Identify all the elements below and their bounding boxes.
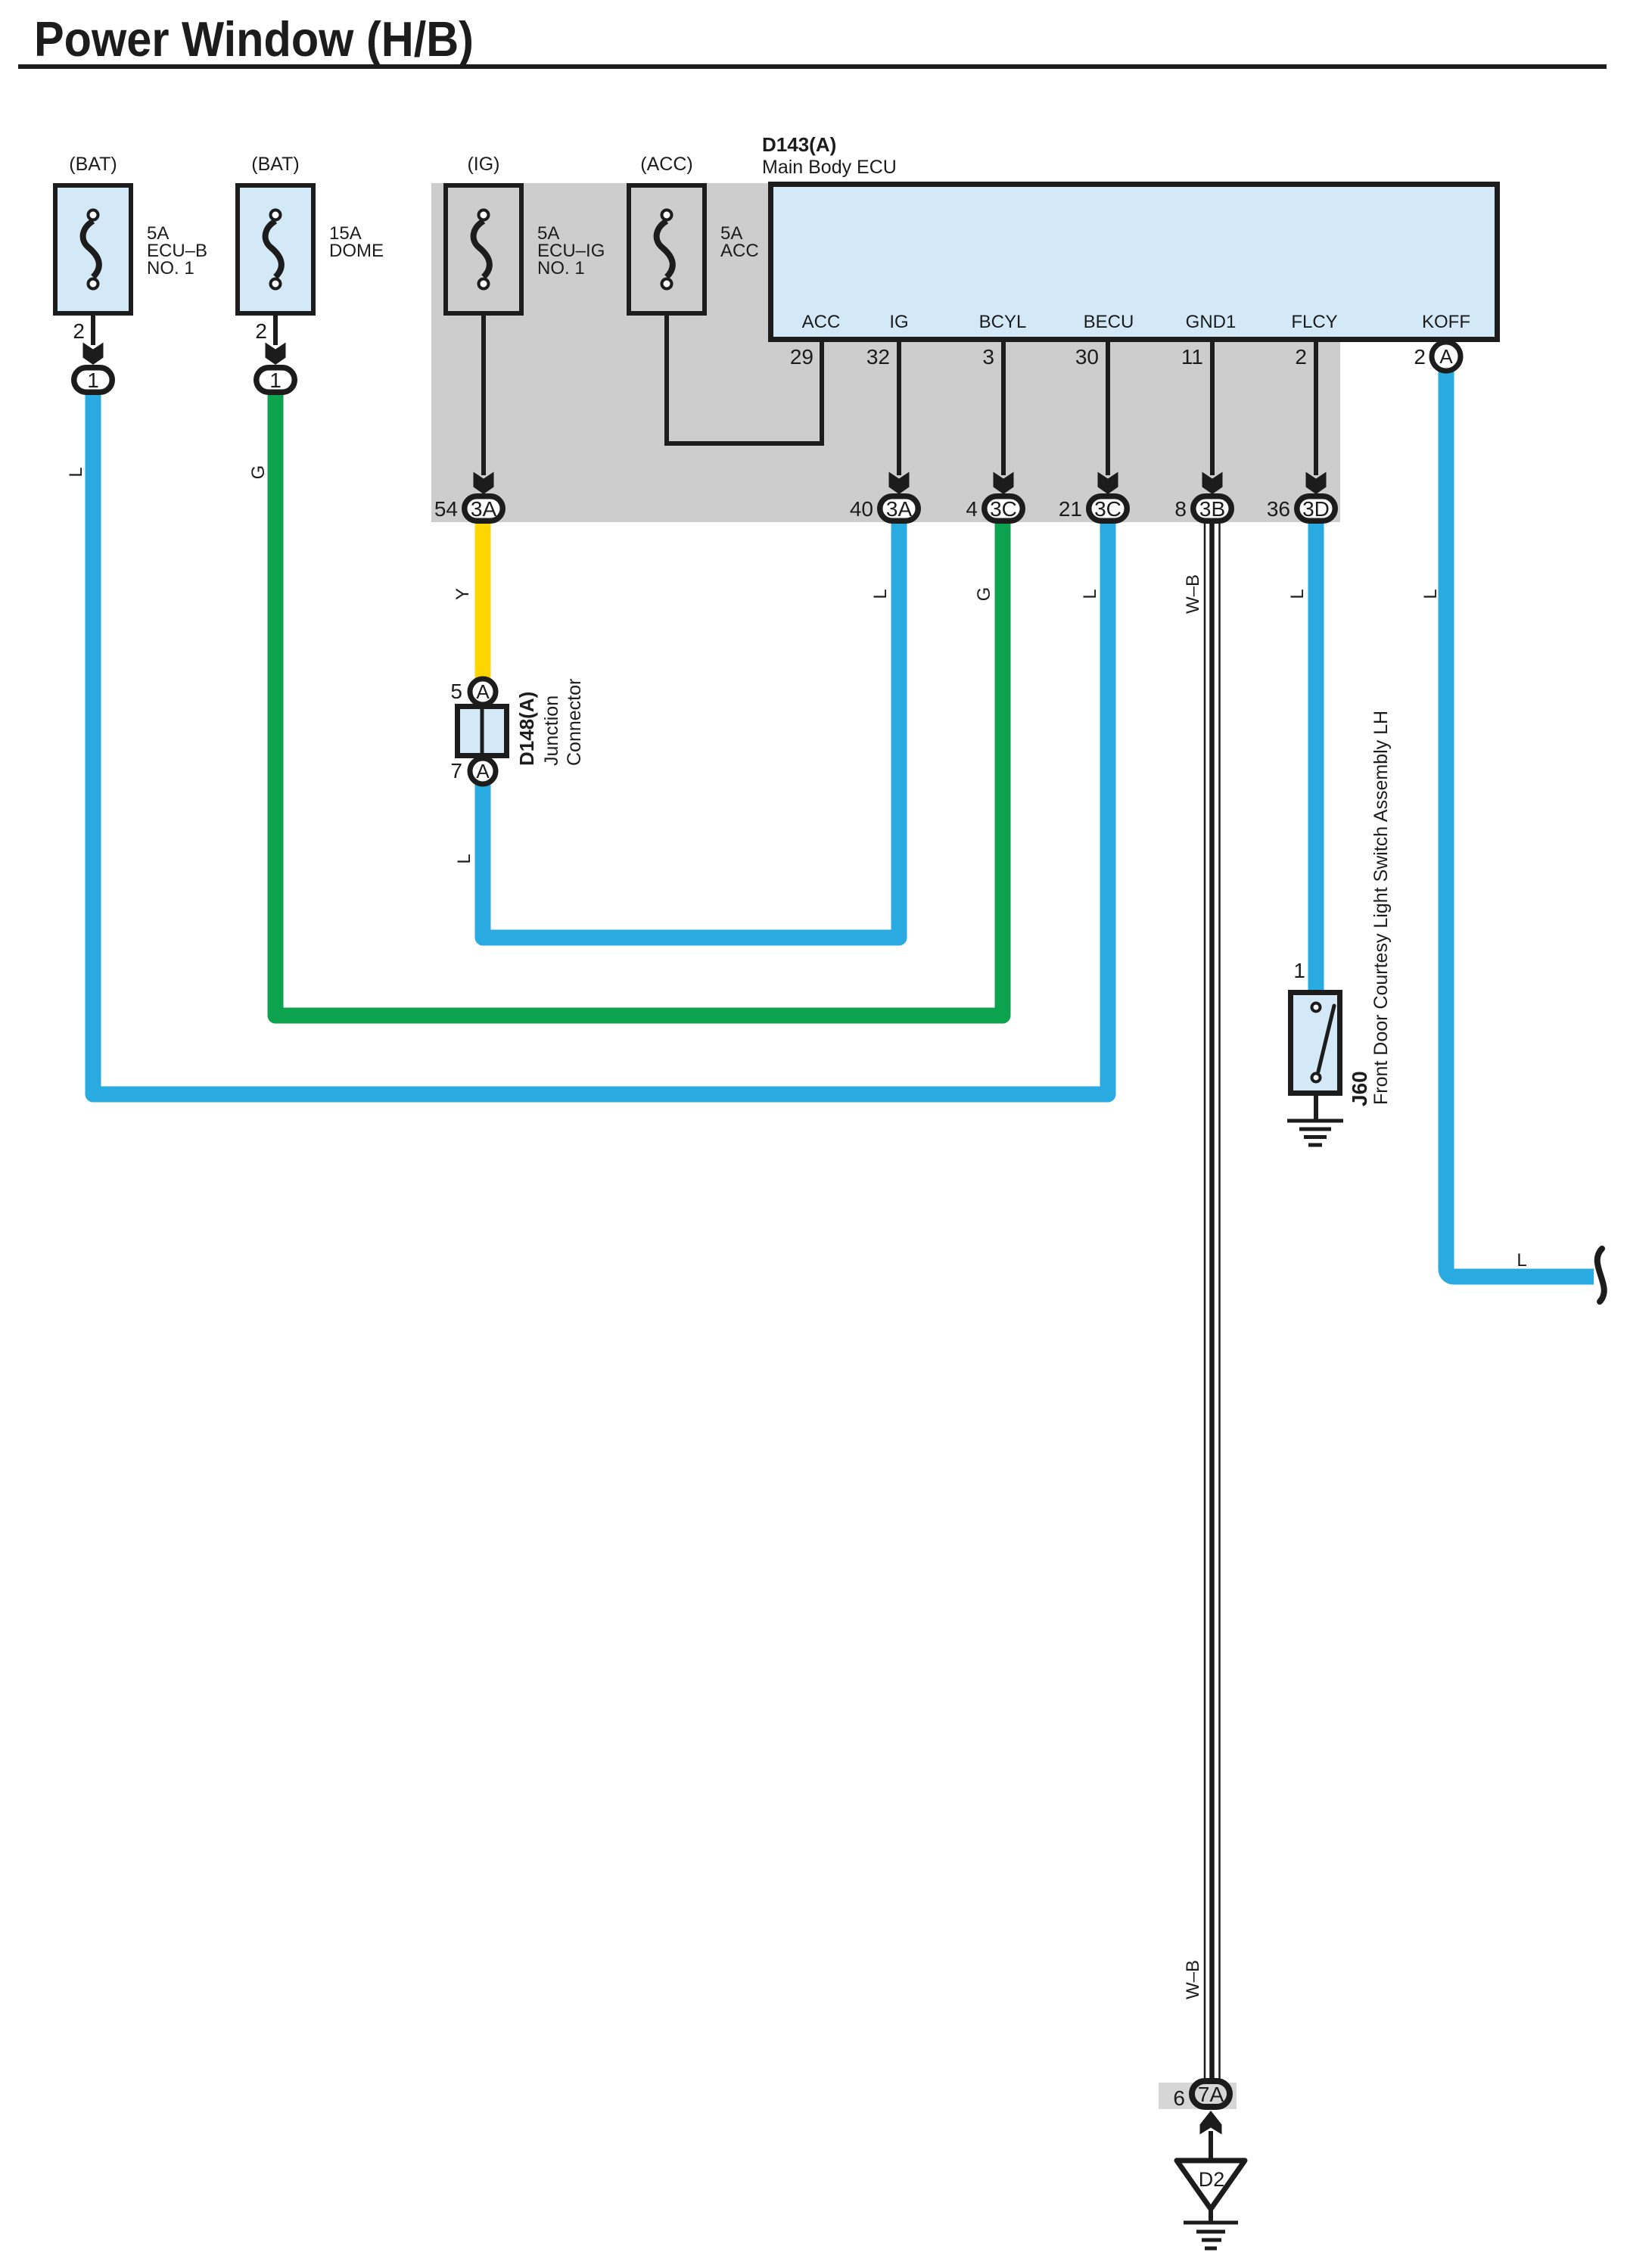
svg-text:(BAT): (BAT) <box>69 154 117 175</box>
svg-text:3C: 3C <box>1094 497 1121 521</box>
svg-text:GND1: GND1 <box>1186 312 1237 332</box>
svg-text:Y: Y <box>453 588 473 600</box>
svg-text:3A: 3A <box>886 497 913 521</box>
svg-text:Power Window (H/B): Power Window (H/B) <box>34 11 474 67</box>
svg-text:L: L <box>870 589 891 599</box>
svg-text:A: A <box>476 760 490 782</box>
svg-text:(IG): (IG) <box>467 154 499 175</box>
svg-text:Junction: Junction <box>541 695 562 766</box>
svg-text:3D: 3D <box>1302 497 1330 521</box>
svg-text:3B: 3B <box>1199 497 1225 521</box>
svg-text:ACC: ACC <box>802 312 841 332</box>
svg-text:30: 30 <box>1075 345 1099 369</box>
svg-text:BECU: BECU <box>1084 312 1134 332</box>
svg-text:NO. 1: NO. 1 <box>147 258 194 278</box>
svg-text:ACC: ACC <box>720 241 759 261</box>
svg-text:7: 7 <box>450 759 462 782</box>
svg-text:3A: 3A <box>471 497 497 521</box>
svg-text:5: 5 <box>450 680 462 703</box>
svg-text:4: 4 <box>966 497 978 521</box>
svg-text:6: 6 <box>1173 2086 1185 2110</box>
svg-text:1: 1 <box>87 369 99 392</box>
svg-text:L: L <box>1420 589 1441 599</box>
svg-text:7A: 7A <box>1198 2083 1224 2106</box>
svg-text:D143(A): D143(A) <box>762 133 836 156</box>
svg-text:2: 2 <box>1295 345 1307 369</box>
svg-text:1: 1 <box>1293 959 1305 982</box>
svg-text:L: L <box>1287 589 1308 599</box>
svg-text:DOME: DOME <box>329 241 384 261</box>
svg-text:J60: J60 <box>1348 1071 1371 1106</box>
svg-text:BCYL: BCYL <box>979 312 1027 332</box>
svg-text:3C: 3C <box>990 497 1017 521</box>
svg-text:11: 11 <box>1181 345 1203 369</box>
svg-text:Connector: Connector <box>564 679 585 766</box>
svg-text:L: L <box>1080 589 1100 599</box>
svg-text:FLCY: FLCY <box>1291 312 1337 332</box>
svg-text:54: 54 <box>434 497 458 521</box>
svg-text:IG: IG <box>889 312 908 332</box>
svg-text:29: 29 <box>790 345 813 369</box>
svg-text:L: L <box>1517 1250 1526 1271</box>
svg-text:A: A <box>1439 345 1453 368</box>
svg-text:Front Door Courtesy Light Swit: Front Door Courtesy Light Switch Assembl… <box>1370 711 1392 1105</box>
svg-text:KOFF: KOFF <box>1422 312 1470 332</box>
svg-text:D148(A): D148(A) <box>515 692 538 766</box>
svg-text:G: G <box>974 587 994 602</box>
svg-text:2: 2 <box>255 319 267 343</box>
svg-text:A: A <box>476 680 490 703</box>
svg-text:(ACC): (ACC) <box>640 154 692 175</box>
svg-text:G: G <box>248 465 269 480</box>
svg-text:2: 2 <box>73 319 85 343</box>
svg-text:36: 36 <box>1267 497 1290 521</box>
svg-text:L: L <box>66 467 86 477</box>
svg-text:2: 2 <box>1414 345 1426 369</box>
svg-text:32: 32 <box>866 345 890 369</box>
svg-text:L: L <box>454 854 474 863</box>
svg-text:(BAT): (BAT) <box>251 154 299 175</box>
svg-text:W–B: W–B <box>1183 1960 1203 1999</box>
svg-text:8: 8 <box>1174 497 1187 521</box>
svg-text:Main Body ECU: Main Body ECU <box>762 157 897 178</box>
svg-text:NO. 1: NO. 1 <box>537 258 585 278</box>
svg-text:1: 1 <box>269 369 282 392</box>
svg-text:40: 40 <box>850 497 873 521</box>
svg-text:21: 21 <box>1059 497 1082 521</box>
svg-text:D2: D2 <box>1199 2168 1225 2191</box>
svg-text:3: 3 <box>982 345 994 369</box>
svg-text:W–B: W–B <box>1183 574 1203 614</box>
